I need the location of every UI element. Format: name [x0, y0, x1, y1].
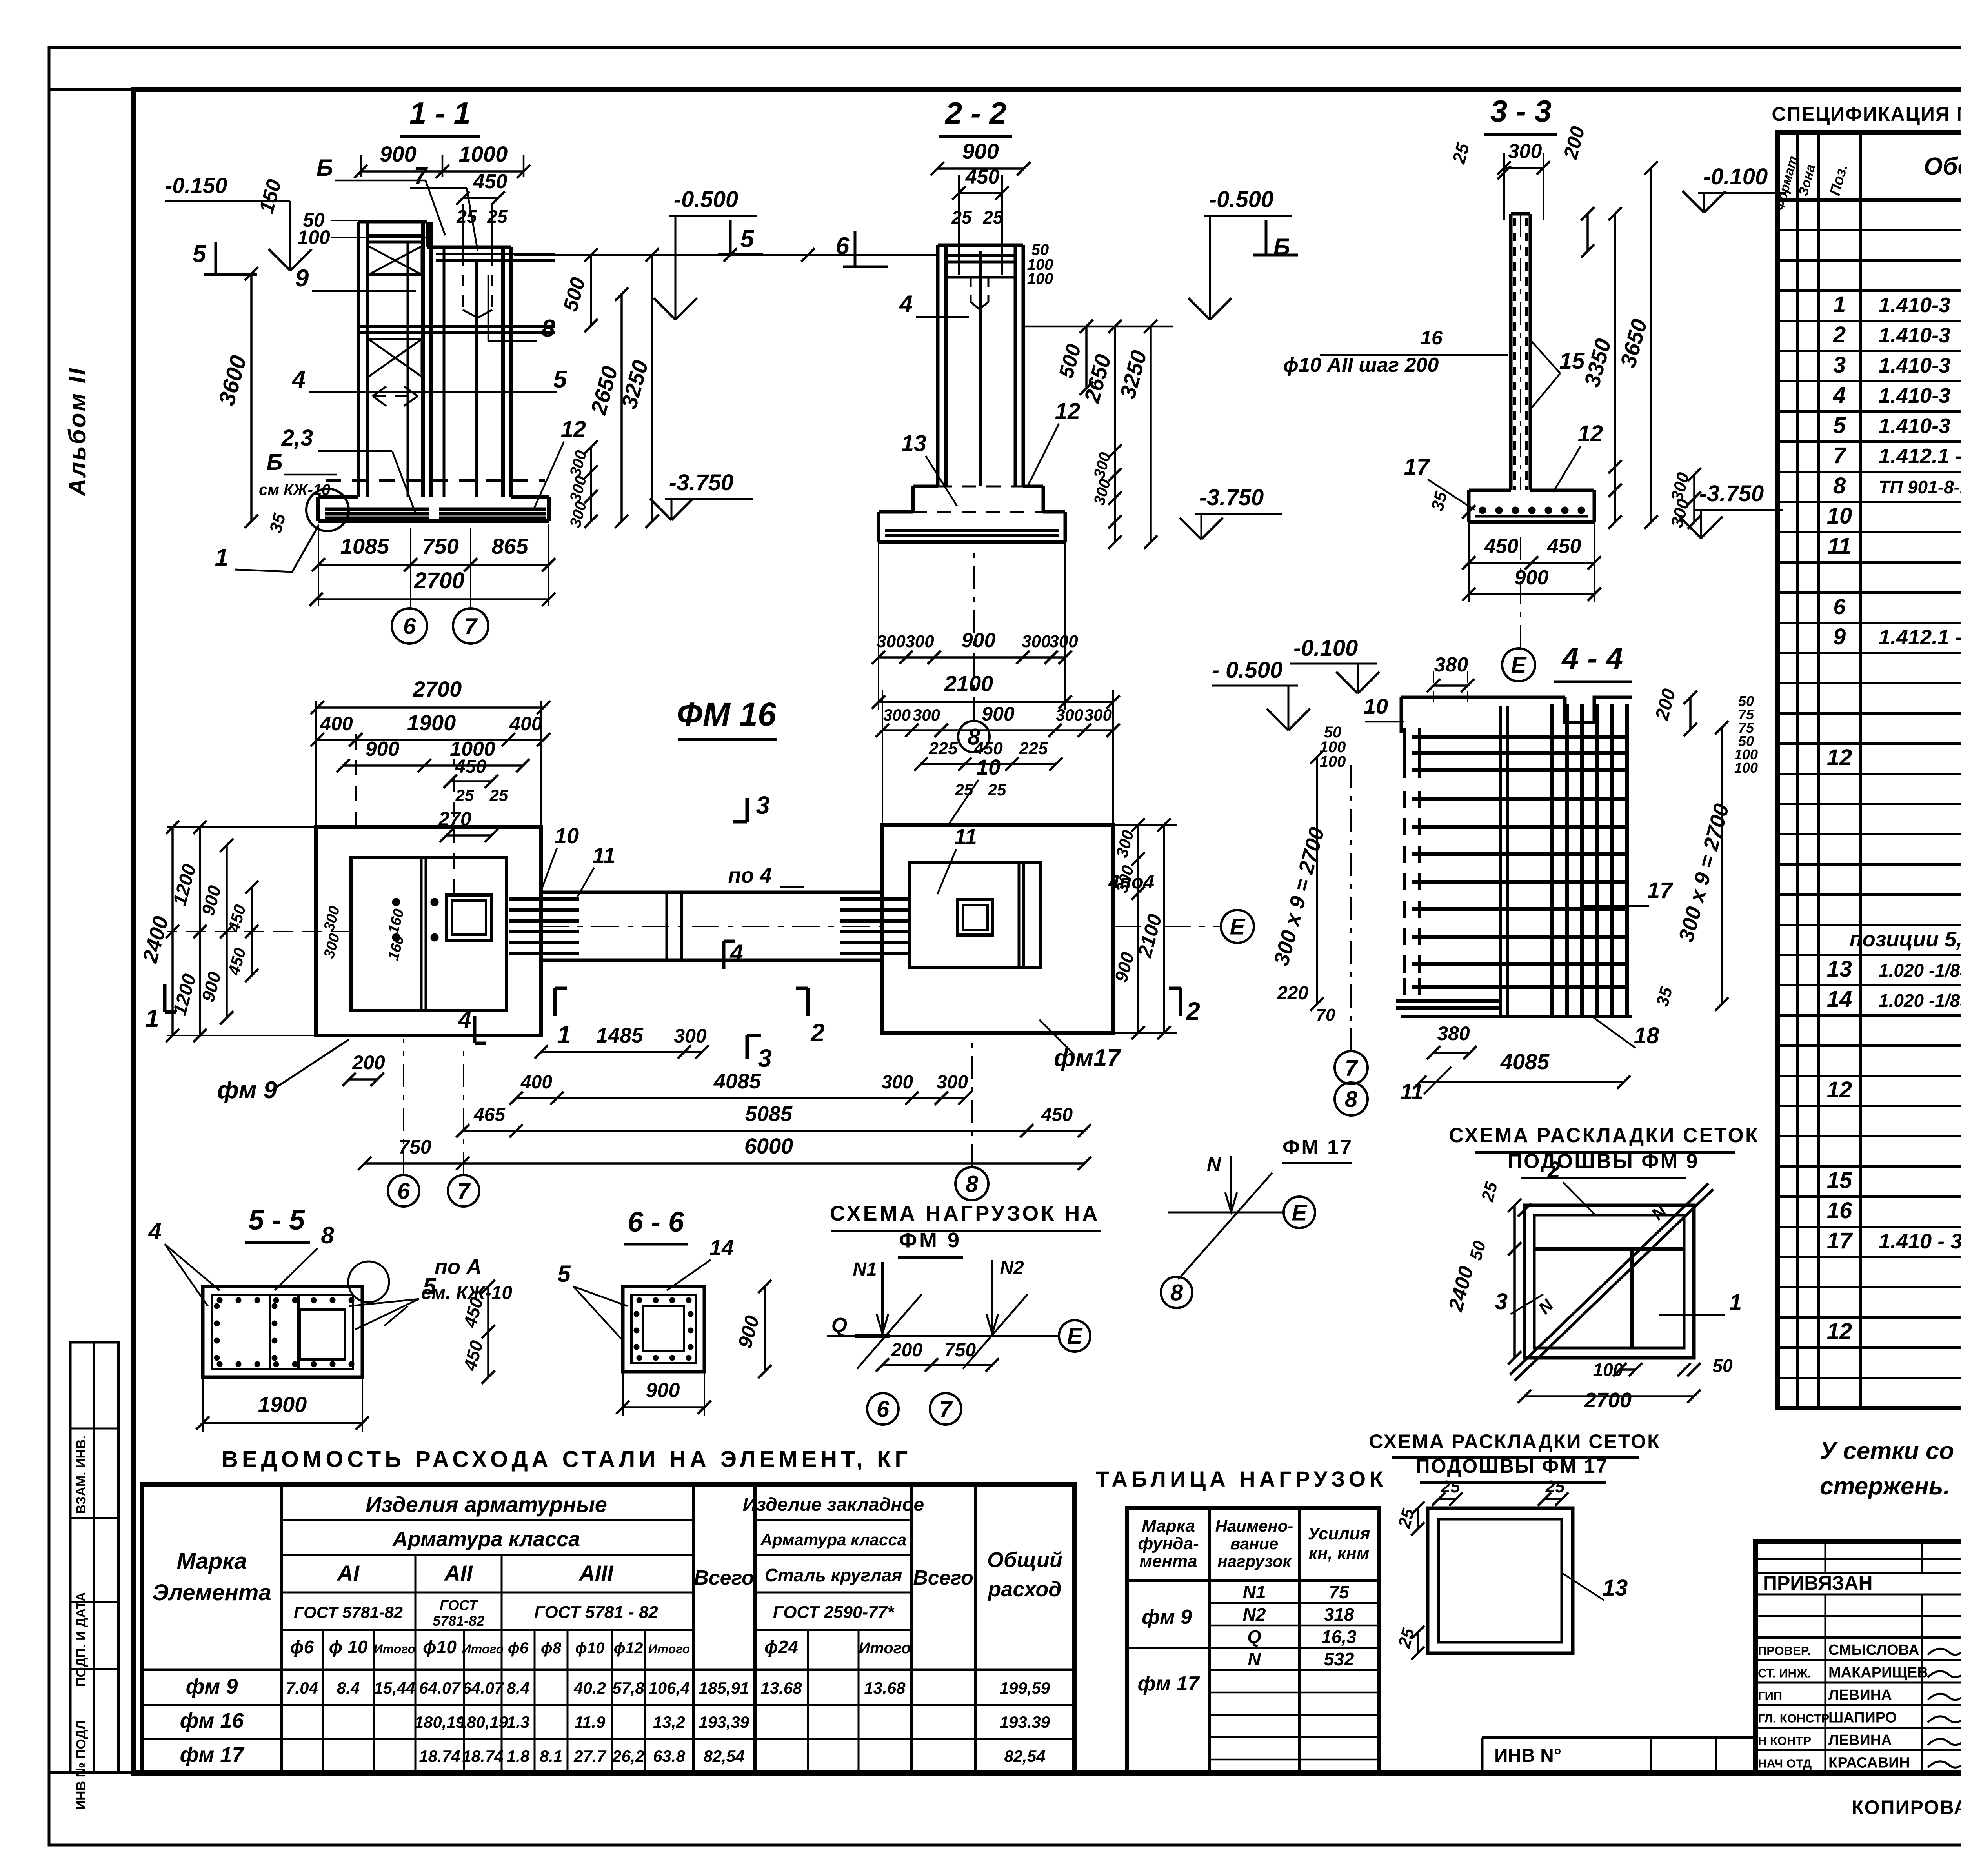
svg-text:100: 100 — [1320, 753, 1346, 770]
svg-text:СХЕМА РАСКЛАДКИ СЕТОК: СХЕМА РАСКЛАДКИ СЕТОК — [1449, 1124, 1759, 1147]
section 1-1 axis circles — [392, 608, 427, 644]
svg-text:900: 900 — [982, 703, 1015, 725]
svg-text:8: 8 — [321, 1222, 334, 1248]
section 4-4 bottom bars — [1396, 999, 1502, 1003]
svg-text:50: 50 — [1712, 1356, 1733, 1376]
svg-text:900: 900 — [366, 738, 400, 761]
svg-text:9: 9 — [295, 265, 309, 292]
svg-text:15: 15 — [1559, 348, 1585, 374]
svg-text:ϕ6: ϕ6 — [290, 1637, 314, 1657]
svg-text:N: N — [1248, 1649, 1261, 1669]
svg-text:13.68: 13.68 — [760, 1679, 802, 1697]
plan top-right dims — [882, 729, 1113, 731]
section 1-1 column walls — [357, 222, 360, 497]
svg-text:1: 1 — [215, 544, 228, 571]
svg-text:5: 5 — [1833, 413, 1846, 438]
svg-text:2: 2 — [810, 1019, 825, 1047]
svg-text:75: 75 — [1329, 1582, 1350, 1602]
svg-text:12: 12 — [1827, 1077, 1852, 1103]
svg-text:Обозначение: Обозначение — [1924, 153, 1961, 180]
svg-text:КРАСАВИН: КРАСАВИН — [1828, 1755, 1910, 1771]
svg-text:11: 11 — [1828, 533, 1851, 559]
svg-text:465: 465 — [473, 1104, 506, 1125]
svg-text:N1: N1 — [853, 1259, 877, 1280]
specification table grid — [1777, 132, 1961, 1408]
svg-text:380: 380 — [1437, 1023, 1470, 1044]
svg-text:25: 25 — [955, 781, 973, 799]
svg-text:13: 13 — [1603, 1575, 1628, 1601]
svg-text:1.412.1 - 4: 1.412.1 - 4 — [1879, 626, 1961, 649]
svg-text:Общий: Общий — [987, 1548, 1062, 1572]
svg-text:ПРИВЯЗАН: ПРИВЯЗАН — [1763, 1572, 1873, 1594]
svg-text:13: 13 — [901, 431, 927, 456]
steel consumption table grid — [142, 1485, 1075, 1773]
svg-text:позиции 5, 10, 11: позиции 5, 10, 11 — [1850, 928, 1961, 951]
svg-text:1: 1 — [1833, 292, 1846, 317]
svg-text:25: 25 — [1545, 1477, 1565, 1496]
svg-text:2700: 2700 — [1584, 1388, 1632, 1412]
svg-text:СТ. ИНЖ.: СТ. ИНЖ. — [1758, 1667, 1811, 1680]
section 2-2 top dims — [937, 167, 1024, 170]
svg-text:5: 5 — [553, 366, 568, 393]
svg-text:фм 17: фм 17 — [1138, 1672, 1200, 1695]
svg-text:1.410-3: 1.410-3 — [1879, 324, 1950, 347]
svg-text:ϕ24: ϕ24 — [764, 1637, 798, 1657]
section 5-5 body — [203, 1286, 362, 1377]
section 5-5 rebar dots — [217, 1297, 222, 1303]
svg-text:200: 200 — [891, 1340, 922, 1361]
svg-text:2: 2 — [1547, 1157, 1560, 1183]
svg-text:4085: 4085 — [713, 1070, 761, 1093]
svg-text:900: 900 — [962, 139, 999, 164]
section 3-3 bottom dims — [1469, 562, 1594, 564]
svg-text:ϕ8: ϕ8 — [541, 1639, 562, 1657]
svg-text:фм 9: фм 9 — [186, 1675, 238, 1698]
svg-text:10: 10 — [1364, 694, 1388, 719]
svg-text:450: 450 — [965, 166, 1000, 188]
svg-text:см КЖ-10: см КЖ-10 — [259, 481, 330, 499]
svg-text:Марка: Марка — [1142, 1516, 1195, 1536]
section 2-2 column — [936, 245, 940, 486]
svg-text:ТП 901-8-14.86 КЖИ.100.00.03: ТП 901-8-14.86 КЖИ.100.00.03 — [1879, 477, 1961, 497]
plan left footing FM9 outline — [316, 827, 541, 1035]
section 1-1 podgotovka dashed — [326, 479, 545, 482]
section 1-1 vertical rebar — [407, 243, 409, 497]
svg-text:-0.100: -0.100 — [1293, 635, 1358, 661]
svg-text:2,3: 2,3 — [281, 425, 313, 451]
svg-text:стержень.: стержень. — [1820, 1473, 1950, 1500]
svg-text:8: 8 — [1170, 1280, 1183, 1305]
svg-text:ГИП: ГИП — [1758, 1689, 1782, 1703]
svg-text:7: 7 — [1345, 1055, 1359, 1081]
svg-text:2700: 2700 — [413, 568, 464, 593]
svg-text:11: 11 — [954, 824, 977, 849]
svg-text:Всего: Всего — [913, 1567, 973, 1589]
svg-text:СПЕЦИФИКАЦИЯ МОНОЛИТНЫХ ФУНД: СПЕЦИФИКАЦИЯ МОНОЛИТНЫХ ФУНДАМЕНТОВ ФМ 9… — [1772, 103, 1961, 125]
section 3-3 top dim 300 — [1504, 167, 1543, 169]
svg-text:25: 25 — [951, 207, 972, 227]
mesh layout FM9 diagonal — [1510, 1183, 1708, 1375]
svg-text:ФМ 9: ФМ 9 — [899, 1228, 962, 1252]
svg-text:1.020 -1/83.1 -10.2,0-03: 1.020 -1/83.1 -10.2,0-03 — [1879, 960, 1961, 981]
svg-text:Q: Q — [1247, 1627, 1261, 1647]
svg-text:Q: Q — [831, 1314, 847, 1337]
svg-text:12: 12 — [1055, 398, 1081, 424]
svg-text:ПРОВЕР.: ПРОВЕР. — [1758, 1644, 1810, 1658]
plan right footing FM17 outline — [882, 825, 1113, 1033]
plan beam rebar left — [509, 897, 579, 901]
svg-text:5085: 5085 — [745, 1102, 793, 1126]
svg-text:по А: по А — [435, 1255, 482, 1279]
svg-text:ФМ 17: ФМ 17 — [1282, 1136, 1353, 1159]
svg-text:13,2: 13,2 — [653, 1713, 685, 1731]
svg-text:8: 8 — [1345, 1086, 1358, 1112]
svg-text:7: 7 — [464, 613, 478, 639]
svg-text:фм 16: фм 16 — [180, 1709, 244, 1732]
svg-text:ЛЕВИНА: ЛЕВИНА — [1828, 1687, 1892, 1703]
svg-text:1.020 -1/83.1 -10.3,0-01: 1.020 -1/83.1 -10.3,0-01 — [1879, 990, 1961, 1011]
svg-text:40.2: 40.2 — [573, 1679, 606, 1697]
svg-text:6: 6 — [836, 233, 850, 260]
section 1-1 dashed arrows — [373, 395, 418, 397]
svg-text:6000: 6000 — [744, 1134, 793, 1158]
svg-text:8.1: 8.1 — [540, 1747, 562, 1765]
svg-text:25: 25 — [487, 206, 508, 227]
bottom-left rotated stamp strip — [70, 1342, 118, 1773]
svg-text:Итого: Итого — [648, 1642, 690, 1656]
svg-text:4: 4 — [291, 366, 306, 393]
svg-text:4: 4 — [899, 291, 912, 317]
svg-text:ПОДП. И ДАТА: ПОДП. И ДАТА — [74, 1592, 89, 1687]
title block — [1755, 1542, 1961, 1773]
svg-text:57,8: 57,8 — [612, 1679, 644, 1697]
svg-text:17: 17 — [1827, 1228, 1853, 1254]
svg-text:5: 5 — [557, 1261, 571, 1287]
svg-text:450: 450 — [973, 739, 1003, 758]
svg-text:3: 3 — [1833, 352, 1846, 378]
svg-text:ИНВ N°: ИНВ N° — [1494, 1745, 1561, 1766]
svg-text:25: 25 — [455, 786, 474, 804]
svg-text:8.4: 8.4 — [507, 1679, 529, 1697]
svg-text:Итого: Итого — [462, 1642, 504, 1656]
mesh layout FM17 square — [1428, 1508, 1573, 1653]
title block upper mini grid — [1755, 1558, 1961, 1560]
svg-text:13.68: 13.68 — [864, 1679, 906, 1697]
section 1-1 footing rebar — [325, 508, 429, 511]
plan section marks — [746, 798, 749, 822]
plan left dims — [171, 827, 174, 1035]
svg-text:4085: 4085 — [1500, 1049, 1550, 1074]
svg-text:193.39: 193.39 — [1000, 1713, 1050, 1731]
svg-text:5 - 5: 5 - 5 — [248, 1205, 305, 1236]
svg-text:-0.150: -0.150 — [165, 173, 227, 198]
section 4-4 axis circles — [1335, 1051, 1368, 1084]
svg-text:18.74: 18.74 — [462, 1747, 503, 1765]
svg-text:Е: Е — [1292, 1200, 1308, 1225]
svg-text:3 - 3: 3 - 3 — [1490, 94, 1552, 128]
svg-text:6: 6 — [403, 613, 416, 639]
svg-text:750: 750 — [422, 534, 458, 559]
svg-text:Арматура класса: Арматура класса — [760, 1530, 906, 1549]
svg-text:300: 300 — [674, 1025, 707, 1047]
svg-text:ВЗАМ. ИНВ.: ВЗАМ. ИНВ. — [74, 1436, 89, 1514]
svg-text:450: 450 — [1484, 535, 1519, 558]
svg-text:200: 200 — [352, 1052, 385, 1074]
svg-text:Альбом II: Альбом II — [64, 367, 91, 497]
svg-text:400: 400 — [520, 1072, 552, 1093]
plan beam — [541, 891, 882, 894]
svg-text:865: 865 — [491, 534, 528, 559]
plan left column box — [446, 895, 491, 940]
section 2-2 axis circle 8 — [958, 721, 990, 752]
svg-text:300: 300 — [1022, 632, 1051, 651]
svg-text:Б: Б — [317, 155, 333, 181]
svg-text:900: 900 — [1515, 566, 1549, 589]
svg-text:расход: расход — [987, 1578, 1061, 1601]
svg-text:ГОСТ 5781 - 82: ГОСТ 5781 - 82 — [534, 1603, 658, 1622]
svg-text:16,3: 16,3 — [1321, 1627, 1357, 1647]
section 2-2 bottom dims — [879, 656, 1065, 659]
svg-text:Е: Е — [1511, 652, 1527, 678]
svg-text:10: 10 — [1827, 503, 1852, 529]
svg-text:300: 300 — [913, 706, 940, 724]
svg-text:вание: вание — [1230, 1534, 1279, 1553]
section 1-1 bottom dims — [318, 564, 549, 566]
svg-text:300: 300 — [1049, 632, 1078, 651]
svg-text:Итого: Итого — [374, 1642, 415, 1656]
svg-text:106,4: 106,4 — [648, 1679, 689, 1697]
section 1-1 anchor slot dashed — [462, 254, 464, 310]
section 4-4 axis dashline — [1350, 765, 1352, 1050]
svg-text:ШАПИРО: ШАПИРО — [1828, 1710, 1897, 1726]
ground level line -0.500 — [514, 254, 937, 256]
svg-text:мента: мента — [1139, 1552, 1197, 1571]
svg-text:4: 4 — [458, 1006, 471, 1033]
svg-text:1: 1 — [557, 1021, 571, 1049]
section 1-1 detail circle — [306, 489, 349, 531]
svg-text:4: 4 — [148, 1218, 161, 1245]
svg-text:АI: АI — [337, 1561, 360, 1585]
svg-text:N1: N1 — [1243, 1582, 1266, 1602]
svg-text:13: 13 — [1827, 956, 1852, 982]
svg-text:300: 300 — [882, 1072, 913, 1093]
svg-text:1.8: 1.8 — [507, 1747, 530, 1765]
svg-text:Сталь круглая: Сталь круглая — [765, 1565, 902, 1585]
svg-text:25: 25 — [489, 786, 508, 804]
svg-text:1.410-3: 1.410-3 — [1879, 293, 1950, 317]
svg-text:Н КОНТР: Н КОНТР — [1758, 1734, 1811, 1748]
svg-text:1900: 1900 — [258, 1392, 307, 1417]
svg-text:11: 11 — [593, 843, 615, 868]
svg-text:2700: 2700 — [413, 677, 462, 701]
svg-text:ФМ 16: ФМ 16 — [677, 696, 777, 733]
svg-text:1.412.1 - 4: 1.412.1 - 4 — [1879, 444, 1961, 468]
svg-text:1.3: 1.3 — [507, 1713, 529, 1731]
section 4-4 outline with notch — [1401, 696, 1565, 699]
svg-text:1: 1 — [145, 1004, 159, 1032]
svg-text:нагрузок: нагрузок — [1217, 1552, 1292, 1570]
svg-text:82,54: 82,54 — [703, 1747, 744, 1765]
svg-text:фм17: фм17 — [1054, 1044, 1121, 1072]
svg-text:3: 3 — [1495, 1289, 1508, 1314]
svg-text:Изделие закладное: Изделие закладное — [743, 1494, 924, 1515]
svg-text:-3.750: -3.750 — [1199, 485, 1264, 510]
svg-text:1.410-3: 1.410-3 — [1879, 354, 1950, 377]
plan beam rebar right — [840, 897, 910, 901]
svg-text:25: 25 — [982, 207, 1004, 227]
section 3-3 wall — [1509, 214, 1513, 490]
svg-text:2 - 2: 2 - 2 — [944, 96, 1006, 130]
svg-text:ГОСТ 2590-77*: ГОСТ 2590-77* — [773, 1603, 895, 1622]
svg-text:82,54: 82,54 — [1004, 1747, 1045, 1765]
svg-text:450: 450 — [1547, 535, 1581, 558]
svg-text:12: 12 — [1827, 745, 1852, 770]
svg-text:Элемента: Элемента — [152, 1580, 271, 1605]
svg-text:532: 532 — [1324, 1649, 1354, 1669]
svg-text:фм 9: фм 9 — [1142, 1606, 1192, 1629]
svg-text:225: 225 — [928, 739, 958, 758]
svg-text:6 - 6: 6 - 6 — [628, 1206, 684, 1238]
svg-text:900: 900 — [646, 1379, 680, 1402]
plan top-left dims — [317, 706, 544, 709]
svg-text:100: 100 — [297, 226, 330, 248]
section 3-3 right vertical dims — [1614, 214, 1616, 522]
svg-text:2: 2 — [1833, 322, 1846, 348]
svg-text:1.410-3: 1.410-3 — [1879, 414, 1950, 438]
section 6-6 body — [623, 1286, 704, 1372]
svg-text:АIII: АIII — [578, 1561, 614, 1585]
svg-text:300: 300 — [1508, 140, 1542, 163]
svg-text:193,39: 193,39 — [699, 1713, 749, 1731]
svg-text:400: 400 — [320, 713, 353, 735]
svg-text:27.7: 27.7 — [573, 1747, 606, 1765]
svg-text:6: 6 — [877, 1396, 890, 1422]
load scheme FM9 axis circles — [867, 1393, 899, 1425]
section 4-4 right vertical dim — [1721, 728, 1723, 1004]
svg-text:300: 300 — [1084, 706, 1112, 724]
section 3-3 axis circle E — [1502, 648, 1535, 681]
svg-text:1.410-3: 1.410-3 — [1879, 384, 1950, 408]
svg-text:450: 450 — [473, 170, 508, 193]
svg-text:11: 11 — [1401, 1079, 1423, 1104]
svg-text:8.4: 8.4 — [337, 1679, 360, 1697]
svg-text:Марка: Марка — [176, 1548, 247, 1574]
svg-text:8: 8 — [1833, 473, 1846, 499]
svg-text:11.9: 11.9 — [575, 1713, 606, 1731]
svg-text:ϕ 10: ϕ 10 — [329, 1637, 368, 1657]
svg-text:12: 12 — [1578, 421, 1603, 446]
svg-text:Наимено-: Наимено- — [1215, 1517, 1293, 1535]
svg-text:АII: АII — [444, 1561, 473, 1585]
svg-text:2100: 2100 — [944, 671, 993, 696]
svg-text:1 - 1: 1 - 1 — [409, 96, 471, 130]
svg-text:1000: 1000 — [459, 142, 508, 166]
section 4-4 vertical bars — [1550, 704, 1554, 1015]
svg-text:СМЫСЛОВА: СМЫСЛОВА — [1828, 1642, 1919, 1658]
svg-text:фунда-: фунда- — [1138, 1534, 1199, 1553]
section 1-1 left vertical dim 3600 — [250, 274, 253, 521]
section 6-6 rebar dots — [637, 1297, 642, 1303]
svg-text:ВЕДОМОСТЬ РАСХОДА СТАЛИ НА ЭЛЕ: ВЕДОМОСТЬ РАСХОДА СТАЛИ НА ЭЛЕМЕНТ, КГ — [222, 1447, 911, 1472]
svg-text:ГОСТ: ГОСТ — [440, 1597, 478, 1613]
svg-text:5781-82: 5781-82 — [433, 1613, 484, 1629]
svg-text:ϕ12: ϕ12 — [614, 1639, 643, 1657]
svg-text:185,91: 185,91 — [699, 1679, 749, 1697]
section 1-1 right vertical dims — [590, 255, 592, 326]
svg-text:15: 15 — [1827, 1168, 1852, 1193]
svg-text:3: 3 — [756, 791, 770, 819]
section 4-4 left vertical dim — [1316, 757, 1318, 1004]
svg-text:6: 6 — [397, 1178, 410, 1204]
svg-text:70: 70 — [1316, 1005, 1335, 1024]
svg-text:кн, кнм: кн, кнм — [1309, 1544, 1370, 1563]
svg-text:7: 7 — [939, 1396, 953, 1422]
svg-text:МАКАРИЩЕВ: МАКАРИЩЕВ — [1828, 1665, 1928, 1681]
svg-text:300: 300 — [877, 632, 906, 651]
svg-text:Б: Б — [266, 449, 282, 475]
svg-text:8: 8 — [966, 1171, 979, 1197]
plan axis circles — [388, 1175, 419, 1206]
svg-text:17: 17 — [1647, 878, 1674, 903]
svg-text:12: 12 — [1827, 1319, 1852, 1344]
plan axis circle E right — [1113, 926, 1220, 927]
svg-text:У сетки со знаком * снять верх: У сетки со знаком * снять верхний — [1820, 1437, 1961, 1465]
svg-text:100: 100 — [1027, 270, 1053, 287]
svg-text:63.8: 63.8 — [653, 1747, 685, 1765]
plan right column box — [958, 900, 993, 935]
svg-text:318: 318 — [1324, 1604, 1354, 1625]
svg-text:Е: Е — [1067, 1323, 1083, 1349]
inv number cell — [1482, 1736, 1755, 1739]
svg-text:СХЕМА НАГРУЗОК НА: СХЕМА НАГРУЗОК НА — [830, 1202, 1100, 1225]
svg-text:10: 10 — [976, 755, 1001, 779]
svg-text:5: 5 — [193, 240, 207, 267]
svg-text:64.07: 64.07 — [462, 1679, 504, 1697]
svg-text:750: 750 — [944, 1340, 976, 1361]
svg-text:8: 8 — [542, 315, 555, 342]
svg-text:900: 900 — [962, 629, 996, 652]
section 3-3 footing — [1469, 489, 1511, 492]
load table grid — [1127, 1508, 1379, 1773]
svg-text:400: 400 — [509, 713, 542, 735]
svg-text:1900: 1900 — [407, 710, 456, 735]
svg-text:КОПИРОВАЛ: КОРШУНОВА: КОПИРОВАЛ: КОРШУНОВА — [1852, 1796, 1961, 1818]
mesh layout FM9 square — [1524, 1205, 1694, 1358]
svg-text:1485: 1485 — [596, 1024, 644, 1047]
title block signature rows — [1755, 1659, 1961, 1661]
svg-text:Арматура класса: Арматура класса — [392, 1527, 580, 1551]
svg-text:НАЧ ОТД: НАЧ ОТД — [1758, 1757, 1812, 1770]
svg-text:N2: N2 — [1243, 1604, 1266, 1625]
svg-text:-3.750: -3.750 — [669, 470, 733, 495]
svg-text:17: 17 — [1404, 454, 1430, 480]
svg-text:N2: N2 — [1000, 1257, 1024, 1278]
svg-text:5: 5 — [423, 1273, 437, 1299]
svg-text:4 - 4: 4 - 4 — [1561, 641, 1623, 675]
svg-text:СХЕМА РАСКЛАДКИ СЕТОК: СХЕМА РАСКЛАДКИ СЕТОК — [1369, 1430, 1660, 1452]
svg-text:Е: Е — [1230, 914, 1246, 939]
svg-text:25: 25 — [988, 781, 1006, 799]
svg-text:Всего: Всего — [694, 1567, 754, 1589]
svg-text:ϕ6: ϕ6 — [508, 1639, 529, 1657]
svg-text:Итого: Итого — [859, 1639, 911, 1657]
section 1-1 top dimensions — [361, 170, 524, 173]
svg-text:-0.500: -0.500 — [674, 187, 738, 212]
svg-text:14: 14 — [709, 1235, 734, 1260]
svg-text:ПОДОШВЫ ФМ 17: ПОДОШВЫ ФМ 17 — [1416, 1455, 1608, 1477]
section 2-2 footing steps — [913, 485, 938, 488]
svg-text:100: 100 — [1734, 760, 1758, 776]
